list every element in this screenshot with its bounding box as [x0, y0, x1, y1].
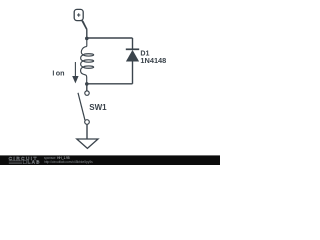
switch SW1 [78, 91, 89, 124]
wire top rail [87, 37, 133, 39]
svg-text:LAB: LAB [28, 160, 41, 165]
svg-text:Ion: Ion [52, 69, 64, 78]
wire node to switch [86, 84, 88, 91]
wire supply to top node [81, 20, 88, 30]
ground [77, 139, 98, 148]
node bottom junction [85, 82, 89, 86]
current arrow I on [72, 62, 78, 83]
inductor L1 [81, 38, 94, 84]
CircuitLab logo [9, 156, 41, 165]
diode D1 [126, 38, 139, 84]
wire bottom rail [87, 83, 133, 85]
wire switch to ground [86, 124, 88, 139]
node top junction [85, 37, 89, 41]
watermark bar [0, 155, 220, 165]
supply terminal V+ [74, 9, 83, 20]
svg-text:http://circuitlab.com/c45kbke5: http://circuitlab.com/c45kbke5py5s [44, 160, 93, 164]
svg-text:SW1: SW1 [89, 103, 107, 112]
svg-text:1N4148: 1N4148 [140, 56, 166, 65]
